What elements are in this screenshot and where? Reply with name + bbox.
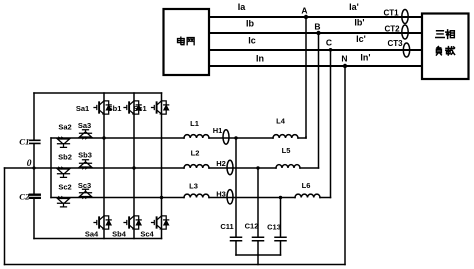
inductor L1 (184, 119, 209, 138)
node 0 midpoint (27, 159, 36, 170)
node B (314, 22, 320, 36)
phase a supply line Ia (209, 16, 422, 18)
phase a output row wire (51, 137, 306, 138)
svg-text:C12: C12 (245, 222, 259, 231)
bidirectional switch Sc3 (78, 181, 92, 199)
svg-text:Sb2: Sb2 (58, 153, 72, 162)
inductor L3 (184, 182, 209, 198)
IGBT Sb1 (108, 101, 142, 115)
wire bottom return (5, 264, 346, 266)
svg-text:L2: L2 (191, 149, 200, 158)
svg-text:CT3: CT3 (387, 39, 403, 48)
junction filter tap b (256, 166, 259, 169)
wire midpoint to left edge (5, 167, 35, 169)
wire drop from node A to phase a output (305, 17, 307, 138)
wire drop from node N to bottom return (344, 66, 346, 265)
node N (341, 54, 347, 69)
svg-text:H3: H3 (216, 190, 226, 199)
svg-text:Sc4: Sc4 (140, 230, 154, 239)
junction filter tap c (279, 196, 282, 199)
capacitor C1 (19, 137, 40, 147)
IGBT Sa4 (85, 216, 111, 239)
wire capacitor common bus (236, 254, 281, 256)
svg-text:Sb4: Sb4 (112, 230, 127, 239)
inductor L2 (184, 149, 209, 169)
svg-text:Sb1: Sb1 (108, 104, 122, 113)
capacitor C2 (19, 192, 40, 202)
svg-text:CT1: CT1 (383, 9, 399, 18)
svg-text:Ic: Ic (248, 36, 256, 46)
junction phase c leg (160, 196, 163, 199)
bidirectional switch Sb2 (58, 153, 72, 178)
IGBT Sc4 (140, 216, 168, 239)
current transformer CT1 (383, 9, 408, 24)
current sensor H1 (213, 126, 229, 144)
svg-text:L4: L4 (276, 117, 286, 126)
svg-text:C2: C2 (19, 192, 30, 202)
svg-text:L5: L5 (282, 146, 291, 155)
dc bus left rail (33, 93, 35, 239)
wire drop from node C to phase c output (330, 50, 332, 198)
svg-text:In': In' (360, 53, 370, 63)
wire left edge down (4, 168, 6, 265)
filter capacitor C11 (220, 138, 241, 255)
svg-text:Sb3: Sb3 (78, 151, 92, 160)
svg-text:H2: H2 (216, 159, 226, 168)
svg-text:Sc1: Sc1 (133, 104, 146, 113)
current sensor H3 (216, 190, 233, 205)
current sensor H2 (216, 159, 233, 175)
svg-text:Ia: Ia (238, 2, 247, 12)
bidirectional switch Sa2 (58, 123, 72, 148)
three-phase load box 三相负载 (422, 14, 469, 80)
svg-text:Sa4: Sa4 (85, 230, 99, 239)
filter capacitor C12 (245, 168, 264, 255)
junction phase b leg (132, 166, 135, 169)
bidirectional switch Sa3 (78, 121, 92, 140)
inductor L4 (273, 117, 298, 139)
junction filter tap a (234, 136, 237, 139)
inductor L5 (276, 146, 300, 168)
svg-text:C13: C13 (267, 223, 281, 232)
IGBT Sa1 (76, 101, 111, 115)
inductor L6 (295, 181, 320, 198)
svg-text:Ia': Ia' (349, 2, 359, 12)
midpoint bus vertical (50, 138, 52, 198)
filter capacitor C13 (267, 198, 286, 256)
current transformer CT3 (387, 39, 409, 57)
bidirectional switch Sb3 (78, 151, 92, 170)
svg-text:Sc2: Sc2 (58, 183, 71, 192)
phase c output row wire (51, 197, 331, 199)
bidirectional switch Sc2 (58, 183, 72, 207)
node A (301, 6, 308, 20)
dc bus bottom rail (34, 238, 162, 240)
node C (326, 38, 332, 52)
svg-text:Sa1: Sa1 (76, 104, 89, 113)
wire drop from node B to phase b output (318, 33, 320, 168)
svg-text:Ic': Ic' (356, 34, 366, 44)
svg-text:C11: C11 (220, 222, 233, 231)
junction phase a leg (102, 136, 105, 139)
inverter leg a (103, 93, 105, 239)
svg-text:CT2: CT2 (384, 25, 400, 34)
IGBT Sb4 (112, 216, 141, 239)
svg-text:L3: L3 (189, 182, 198, 191)
svg-text:C1: C1 (19, 137, 29, 147)
inverter leg c (161, 93, 163, 239)
svg-text:Ib: Ib (246, 19, 255, 29)
svg-text:Ib': Ib' (354, 18, 364, 28)
neutral supply line In (209, 65, 422, 67)
svg-text:N: N (341, 54, 347, 64)
dc bus top rail (34, 92, 162, 94)
grid source box 电网 (164, 9, 210, 75)
current transformer CT2 (384, 25, 408, 40)
phase b output row wire (34, 167, 319, 169)
svg-text:H1: H1 (213, 126, 223, 135)
svg-text:A: A (301, 6, 307, 16)
wire capacitor bus to bottom return (257, 255, 259, 265)
phase c supply line Ic (209, 49, 422, 51)
inverter leg b (133, 93, 135, 239)
svg-text:C: C (326, 38, 332, 48)
svg-text:Sa2: Sa2 (58, 123, 71, 132)
svg-text:B: B (314, 22, 320, 32)
svg-text:L1: L1 (190, 119, 199, 128)
IGBT Sc1 (133, 101, 168, 115)
svg-text:L6: L6 (302, 181, 311, 190)
svg-text:Sa3: Sa3 (78, 121, 91, 130)
phase b supply line Ib (209, 32, 422, 34)
svg-text:In: In (256, 54, 264, 64)
